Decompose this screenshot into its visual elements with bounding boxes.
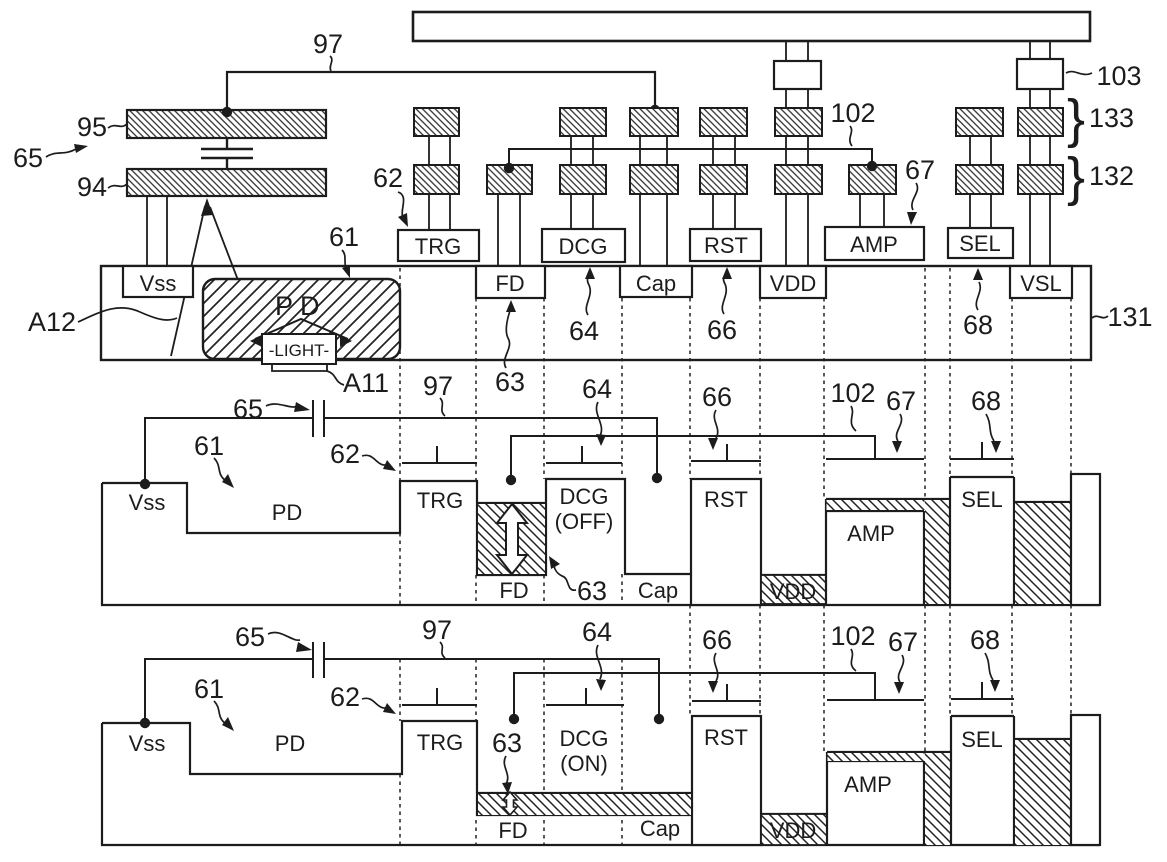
svg-text:66: 66	[702, 382, 732, 412]
svg-text:Cap: Cap	[636, 271, 676, 296]
svg-text:A11: A11	[343, 368, 389, 398]
svg-text:131: 131	[1107, 302, 1152, 332]
svg-text:64: 64	[569, 316, 599, 346]
svg-text:63: 63	[577, 576, 607, 606]
svg-text:TRG: TRG	[417, 488, 463, 513]
svg-text:SEL: SEL	[959, 231, 1001, 256]
svg-text:102: 102	[830, 98, 875, 128]
svg-text:VDD: VDD	[770, 818, 816, 843]
svg-text:}: }	[1067, 147, 1085, 207]
svg-text:PD: PD	[272, 500, 303, 525]
svg-text:FD: FD	[499, 578, 528, 603]
svg-text:RST: RST	[704, 233, 748, 258]
svg-text:RST: RST	[704, 725, 748, 750]
svg-text:65: 65	[13, 143, 43, 173]
svg-text:67: 67	[888, 627, 918, 657]
svg-text:Vss: Vss	[129, 731, 166, 756]
svg-text:FD: FD	[495, 271, 524, 296]
svg-text:VDD: VDD	[770, 271, 816, 296]
svg-text:RST: RST	[704, 487, 748, 512]
svg-text:VDD: VDD	[770, 579, 816, 604]
svg-text:62: 62	[373, 163, 403, 193]
svg-text:Cap: Cap	[638, 578, 678, 603]
svg-text:97: 97	[423, 371, 453, 401]
svg-text:SEL: SEL	[961, 487, 1003, 512]
svg-text:63: 63	[495, 367, 525, 397]
svg-text:62: 62	[330, 682, 360, 712]
svg-text:61: 61	[194, 674, 224, 704]
svg-text:62: 62	[330, 439, 360, 469]
svg-text:133: 133	[1089, 103, 1134, 133]
svg-text:FD: FD	[498, 818, 527, 843]
svg-text:68: 68	[963, 310, 993, 340]
svg-text:94: 94	[77, 172, 107, 202]
svg-text:Vss: Vss	[129, 490, 166, 515]
svg-text:67: 67	[886, 386, 916, 416]
svg-text:95: 95	[77, 112, 107, 142]
svg-text:103: 103	[1096, 61, 1141, 91]
svg-text:65: 65	[233, 394, 263, 424]
svg-text:DCG: DCG	[560, 726, 609, 751]
svg-text:68: 68	[971, 386, 1001, 416]
svg-text:-LIGHT-: -LIGHT-	[269, 341, 329, 360]
svg-text:65: 65	[235, 622, 265, 652]
svg-text:AMP: AMP	[844, 772, 892, 797]
svg-text:PD: PD	[275, 731, 306, 756]
svg-text:SEL: SEL	[961, 727, 1003, 752]
svg-text:TRG: TRG	[417, 730, 463, 755]
svg-text:102: 102	[830, 378, 875, 408]
svg-text:AMP: AMP	[850, 232, 898, 257]
svg-text:DCG: DCG	[560, 484, 609, 509]
svg-text:61: 61	[329, 222, 359, 252]
svg-text:A12: A12	[28, 307, 76, 337]
svg-text:Cap: Cap	[640, 816, 680, 841]
svg-text:66: 66	[702, 625, 732, 655]
svg-text:97: 97	[422, 615, 452, 645]
svg-text:61: 61	[194, 431, 224, 461]
svg-text:Vss: Vss	[140, 271, 177, 296]
svg-text:DCG: DCG	[559, 234, 608, 259]
svg-text:}: }	[1067, 89, 1085, 149]
svg-text:TRG: TRG	[415, 234, 461, 259]
svg-text:68: 68	[970, 625, 1000, 655]
svg-text:66: 66	[707, 315, 737, 345]
svg-text:PD: PD	[275, 291, 327, 321]
svg-text:63: 63	[492, 728, 522, 758]
svg-text:67: 67	[905, 155, 935, 185]
svg-text:(ON): (ON)	[560, 751, 608, 776]
svg-text:97: 97	[313, 29, 343, 59]
svg-text:VSL: VSL	[1020, 271, 1062, 296]
svg-text:64: 64	[582, 374, 612, 404]
svg-text:64: 64	[582, 617, 612, 647]
svg-text:132: 132	[1089, 161, 1134, 191]
svg-text:(OFF): (OFF)	[555, 509, 614, 534]
svg-text:102: 102	[830, 621, 875, 651]
svg-text:AMP: AMP	[847, 521, 895, 546]
